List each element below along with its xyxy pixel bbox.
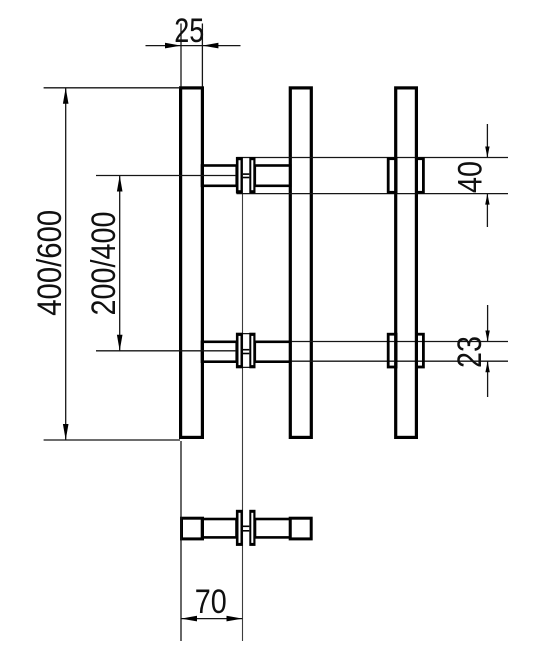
lower clamp screw [243,349,249,354]
dia40 outline line bottom [237,193,509,195]
dimension 40 arrow up [485,194,489,205]
centerline of glass fixing [242,194,244,641]
top view clamp washer piece 2 [249,510,255,546]
lower clamp washer piece 2 [249,333,255,369]
dimension 400/600 arrow up [63,88,69,104]
dimension 25 arrow left [165,43,181,49]
dimension 25 extension lines [181,24,202,87]
dimension 200/400 extension lines [96,176,236,351]
upper connector rod right segment [255,166,290,186]
tube bar1 (left handle profile) [181,88,203,438]
lower rose ring right [416,334,423,367]
top view clamp washer piece 1 [236,510,243,546]
dimension 200/400 arrow up [117,176,123,192]
svg-text:23: 23 [451,336,489,368]
upper clamp washer piece 1 [236,157,243,193]
dia23 outline line bottom [289,360,508,362]
dimension 25 line [146,45,241,47]
dimension 23 arrow up [485,361,489,372]
dimension 40 arrow down [485,147,489,158]
tube bar2 (middle handle profile) [290,88,311,438]
dimension 400/600 line [65,88,67,440]
dimension 200/400 line [119,176,121,351]
dimension 200/400 arrow down [117,335,123,351]
svg-text:40: 40 [452,161,490,193]
svg-text:25: 25 [174,12,204,50]
top view rod right segment [255,519,290,537]
svg-text:200/400: 200/400 [85,212,123,316]
lower connector rod left segment [202,342,237,362]
upper clamp washer piece 2 [249,157,255,193]
lower connector rod right segment [255,342,290,362]
dia40 outline line top [237,157,509,159]
top view tube square 1 [182,518,203,539]
dimension 70 arrow left [181,616,197,622]
lower rose ring left [388,334,396,367]
dimension 23 arrow down [485,331,489,342]
dimension 25 arrow right [202,43,218,49]
dimension 70 line [181,618,243,620]
upper connector rod left segment [202,166,237,186]
top view rod left segment [202,519,237,537]
tube bar3 (front-view handle) [396,88,417,438]
svg-text:400/600: 400/600 [31,210,69,316]
dimension 23 tails [487,305,489,397]
lower clamp washer silhouette lines [237,333,256,335]
lower clamp washer piece 1 [236,333,243,369]
dia23 outline line top [289,341,508,343]
top view tube square 2 [290,518,311,539]
svg-text:70: 70 [195,583,227,621]
upper rose ring left [388,159,396,193]
top view clamp screw [243,526,249,532]
upper rose ring right [416,159,423,193]
dimension 400/600 extension lines [44,88,180,440]
upper clamp screw [243,173,249,178]
dimension 70 arrow right [227,616,243,622]
dimension 70 extension line left [180,441,182,641]
dimension 400/600 arrow down [63,424,69,440]
dimension 40 tails [486,124,488,227]
